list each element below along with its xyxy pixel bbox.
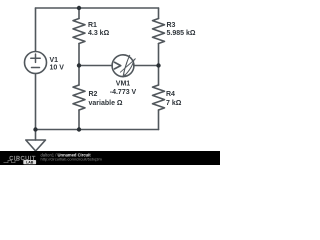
svg-text:R3: R3 xyxy=(167,22,176,29)
wire R1 top stub xyxy=(78,8,80,19)
CircuitLab logo LAB box xyxy=(23,160,36,164)
svg-text:-4.773 V: -4.773 V xyxy=(110,89,137,96)
wire R4 bottom stub xyxy=(158,110,160,130)
junction top rail at R1 xyxy=(77,6,81,10)
svg-text:R2: R2 xyxy=(89,91,98,98)
resistor R1 xyxy=(73,19,85,44)
svg-text:R1: R1 xyxy=(88,22,97,29)
voltage source V1 xyxy=(25,52,47,74)
CircuitLab footer bar xyxy=(0,151,220,165)
resistor R3 xyxy=(153,19,165,44)
svg-text:variable Ω: variable Ω xyxy=(89,100,123,107)
junction bottom rail at ground xyxy=(33,127,37,131)
svg-text:http://circuitlab.com/circuit/: http://circuitlab.com/circuit/6sbq3m xyxy=(41,157,103,162)
junction middle rail at R1/R2 xyxy=(77,63,81,67)
junction bottom rail at R2 xyxy=(77,127,81,131)
svg-text:LAB: LAB xyxy=(26,161,34,165)
wire bottom rail xyxy=(36,129,159,131)
wire R4 top stub xyxy=(158,66,160,86)
svg-text:10 V: 10 V xyxy=(50,65,65,72)
wire V1 branch lower xyxy=(35,74,37,130)
svg-text:VM1: VM1 xyxy=(116,81,131,88)
wire R3 top stub xyxy=(158,8,160,19)
svg-text:V1: V1 xyxy=(50,57,59,64)
ground wire stub xyxy=(35,130,37,141)
resistor R4 xyxy=(153,85,165,110)
resistor R2 xyxy=(73,85,85,110)
junction middle rail at R3/R4 xyxy=(156,63,160,67)
wire middle rail left (R1/R2 node to VM1) xyxy=(79,65,112,67)
wire top rail V1 to R3 xyxy=(36,7,159,9)
wire middle rail right (VM1 to R3/R4 node) xyxy=(134,65,159,67)
ground xyxy=(26,140,46,151)
svg-text:R4: R4 xyxy=(166,91,175,98)
svg-text:5.985 kΩ: 5.985 kΩ xyxy=(167,30,196,37)
wire R1 bottom stub xyxy=(78,44,80,66)
wire R3 bottom stub xyxy=(158,44,160,66)
voltmeter VM1 xyxy=(112,55,135,77)
wire V1 branch upper xyxy=(35,8,37,52)
wire R2 bottom stub xyxy=(78,110,80,130)
wire R2 top stub xyxy=(78,66,80,86)
svg-text:4.3 kΩ: 4.3 kΩ xyxy=(88,30,110,37)
CircuitLab logo waveform xyxy=(4,160,20,162)
svg-text:7 kΩ: 7 kΩ xyxy=(166,100,182,107)
